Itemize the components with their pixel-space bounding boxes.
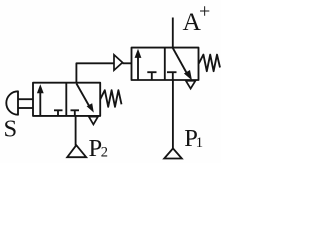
svg-text:S: S bbox=[4, 116, 18, 143]
svg-text:2: 2 bbox=[101, 145, 108, 161]
svg-text:+: + bbox=[199, 1, 210, 23]
svg-text:1: 1 bbox=[196, 135, 204, 151]
